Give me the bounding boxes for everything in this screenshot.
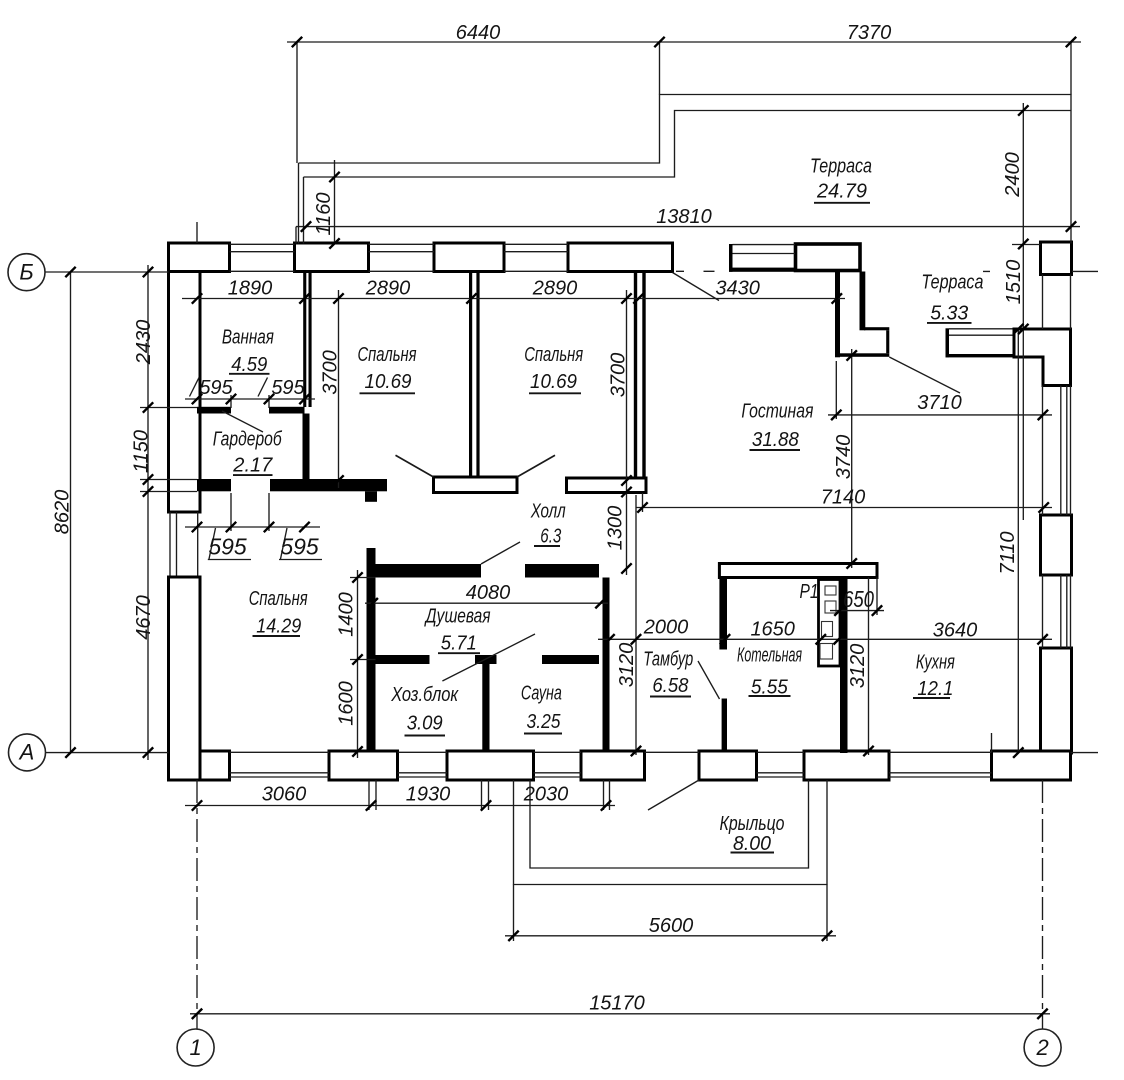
svg-text:12.1: 12.1 xyxy=(917,678,953,700)
svg-text:Душевая: Душевая xyxy=(424,606,491,628)
dims 595 top xyxy=(185,398,315,400)
interior wall bath/bedroom1 xyxy=(303,272,306,408)
dim 15170 xyxy=(190,1013,1050,1015)
svg-text:2890: 2890 xyxy=(532,278,578,300)
svg-text:3430: 3430 xyxy=(715,278,760,300)
terrace 5.33 south window xyxy=(946,328,950,357)
bath door stubs xyxy=(197,407,231,414)
svg-text:Спальня: Спальня xyxy=(524,344,583,366)
svg-text:Спальня: Спальня xyxy=(249,588,308,610)
svg-text:Сауна: Сауна xyxy=(521,683,562,705)
svg-text:Р1: Р1 xyxy=(800,581,819,603)
L-pier at terrace SE xyxy=(1014,329,1071,386)
svg-text:5.71: 5.71 xyxy=(441,633,477,655)
svg-text:8620: 8620 xyxy=(52,490,74,535)
leader 3430 xyxy=(673,273,720,301)
svg-text:4080: 4080 xyxy=(466,582,511,604)
svg-text:3120: 3120 xyxy=(616,643,638,688)
dim 5600 xyxy=(505,935,836,937)
middle chain 2000/1650/3640 xyxy=(598,638,1052,640)
svg-text:1: 1 xyxy=(189,1035,201,1060)
boiler left wall + stub xyxy=(719,578,727,650)
dim 3740 xyxy=(851,349,853,568)
svg-text:4670: 4670 xyxy=(133,595,155,640)
svg-text:Крыльцо: Крыльцо xyxy=(720,813,785,835)
svg-text:2: 2 xyxy=(1035,1035,1048,1060)
svg-text:31.88: 31.88 xyxy=(752,429,799,451)
svg-text:7370: 7370 xyxy=(847,22,892,44)
svg-text:595: 595 xyxy=(199,377,233,399)
svg-text:3740: 3740 xyxy=(833,435,855,480)
svg-text:1890: 1890 xyxy=(228,278,273,300)
axis 1 and 2 dash-dot xyxy=(197,222,1043,1029)
svg-text:595: 595 xyxy=(280,534,319,560)
niche / chimney U-wall at living room NE xyxy=(835,272,840,358)
dim 2400/1510 xyxy=(1022,103,1024,520)
svg-text:1160: 1160 xyxy=(313,192,335,235)
svg-text:3.09: 3.09 xyxy=(407,713,443,735)
dims 595 bottom xyxy=(185,526,320,528)
svg-text:Гостиная: Гостиная xyxy=(741,401,813,423)
north window piece right of living-room opening xyxy=(729,244,733,272)
right wall window lines xyxy=(1043,275,1071,330)
right wall piers xyxy=(1041,515,1072,575)
south wall piers (axis А) xyxy=(169,751,230,780)
dash of axis Б in living-room opening xyxy=(676,270,990,272)
svg-text:А: А xyxy=(18,740,35,765)
svg-text:1300: 1300 xyxy=(605,506,627,551)
svg-text:1150: 1150 xyxy=(131,430,153,473)
svg-text:2890: 2890 xyxy=(365,278,411,300)
svg-text:13810: 13810 xyxy=(656,206,712,228)
dim 4080 xyxy=(365,602,608,604)
shower-block left wall xyxy=(367,548,376,752)
shower top walls xyxy=(376,564,482,578)
svg-text:Кухня: Кухня xyxy=(916,652,955,674)
axis lines Б and А xyxy=(45,271,1098,752)
north windows glazing xyxy=(230,243,569,245)
wall right of flue xyxy=(840,578,848,754)
svg-text:2.17: 2.17 xyxy=(232,455,273,477)
svg-text:5.33: 5.33 xyxy=(930,303,968,325)
wall bedroom1/bedroom2 xyxy=(469,272,472,478)
dim 3710 xyxy=(828,414,1052,416)
wardrobe bottom walls xyxy=(197,479,231,491)
dim 3700 left xyxy=(338,290,340,488)
svg-text:3700: 3700 xyxy=(320,350,342,395)
svg-text:Ванная: Ванная xyxy=(222,327,274,349)
dim 3700/1300 right xyxy=(626,290,628,575)
svg-text:Котельная: Котельная xyxy=(737,645,802,667)
flue P1 xyxy=(819,580,841,667)
dim 7140 xyxy=(636,507,1052,509)
dims 1400/1600 xyxy=(357,570,359,758)
svg-text:2400: 2400 xyxy=(1002,152,1024,198)
svg-text:14.29: 14.29 xyxy=(256,616,301,638)
svg-text:2030: 2030 xyxy=(523,784,569,806)
bedroom2 right wall and bottom bar xyxy=(634,272,637,479)
svg-text:595: 595 xyxy=(208,534,247,560)
south windows glazing xyxy=(230,751,992,753)
axis circles xyxy=(8,254,45,291)
svg-text:Тамбур: Тамбур xyxy=(643,649,693,671)
svg-text:6.58: 6.58 xyxy=(652,675,688,697)
door leaves in hall xyxy=(396,455,556,477)
svg-text:15170: 15170 xyxy=(589,993,645,1015)
terrace 24.79 boundary xyxy=(299,95,1072,244)
svg-text:3060: 3060 xyxy=(262,784,307,806)
porch xyxy=(514,780,828,885)
svg-text:Б: Б xyxy=(19,260,33,285)
small extensions xyxy=(992,245,1041,753)
top chain 6440/7370 xyxy=(287,41,1081,43)
svg-text:Хоз.блок: Хоз.блок xyxy=(390,684,459,706)
bottom chain 3060/1930/2030 xyxy=(185,805,615,807)
svg-text:3120: 3120 xyxy=(847,644,869,689)
svg-text:3700: 3700 xyxy=(608,353,630,398)
svg-text:24.79: 24.79 xyxy=(816,181,867,203)
svg-text:650: 650 xyxy=(843,586,874,612)
wardrobe right wall xyxy=(303,414,310,480)
svg-text:Холл: Холл xyxy=(530,501,566,523)
dim 3120 left xyxy=(635,495,637,755)
svg-text:3710: 3710 xyxy=(917,392,962,414)
left (west) wall xyxy=(169,272,201,513)
svg-text:Гардероб: Гардероб xyxy=(213,429,283,451)
svg-text:1930: 1930 xyxy=(406,784,451,806)
svg-text:1400: 1400 xyxy=(336,592,358,637)
svg-text:2430: 2430 xyxy=(133,320,155,366)
svg-text:7110: 7110 xyxy=(997,531,1019,574)
dim 8620 xyxy=(70,272,72,753)
svg-text:1650: 1650 xyxy=(750,619,795,641)
row Б dims 1890/2890/2890/3430 xyxy=(182,298,845,300)
svg-text:5600: 5600 xyxy=(649,915,694,937)
dim 7110 xyxy=(1017,329,1019,753)
svg-text:Спальня: Спальня xyxy=(358,344,417,366)
svg-text:Терраса: Терраса xyxy=(810,156,872,178)
leaders xyxy=(222,411,720,810)
svg-text:4.59: 4.59 xyxy=(231,354,267,376)
svg-text:2000: 2000 xyxy=(643,617,689,639)
svg-text:6.3: 6.3 xyxy=(540,526,561,548)
left chain 2430/1150/4670 xyxy=(147,265,149,760)
WALLS xyxy=(169,242,1072,780)
dim 1160 xyxy=(334,160,336,244)
sauna right wall xyxy=(603,578,610,752)
svg-text:595: 595 xyxy=(271,377,305,399)
svg-text:1600: 1600 xyxy=(336,681,358,726)
tambour/boiler top wall xyxy=(719,564,877,578)
svg-text:6440: 6440 xyxy=(456,22,501,44)
svg-text:1510: 1510 xyxy=(1003,260,1025,305)
svg-text:10.69: 10.69 xyxy=(365,371,412,393)
dim 13810 xyxy=(296,226,1080,228)
dim 650 xyxy=(830,610,884,612)
svg-text:3.25: 3.25 xyxy=(527,711,562,733)
utility walls xyxy=(376,655,430,664)
north wall piers (axis Б) xyxy=(169,243,230,272)
svg-text:Терраса: Терраса xyxy=(921,272,983,294)
dim 3120 right xyxy=(868,578,870,756)
svg-text:3640: 3640 xyxy=(933,620,978,642)
svg-text:10.69: 10.69 xyxy=(530,371,577,393)
svg-text:7140: 7140 xyxy=(821,487,866,509)
